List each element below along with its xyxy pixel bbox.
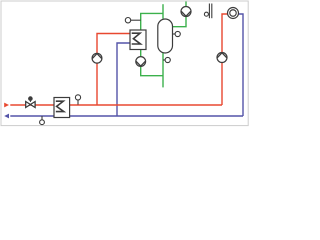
- heat exchanger HX2 (bottom): [54, 98, 70, 118]
- wire green HX1 bottom through pump P2: [141, 50, 163, 76]
- drain D1 (on return line): [40, 116, 45, 125]
- node red inlet arrow: [4, 103, 9, 108]
- sensor S4 (on supply after HX2): [75, 95, 80, 105]
- wire blue riser to HX1: [117, 43, 130, 116]
- vessel T1 (buffer tank): [158, 19, 173, 53]
- gauge G1 (heating circuit, double circle): [228, 8, 239, 19]
- wire red riser to HX1: [97, 34, 130, 106]
- pump P4 (red riser right): [217, 53, 227, 63]
- valve V1 (motor valve on supply): [26, 96, 35, 107]
- wire red heating-circuit supply (right): [222, 14, 228, 105]
- sensor S3 (below vessel): [163, 57, 170, 62]
- wire blue heating-circuit return (right): [238, 14, 243, 116]
- wire green vessel bottom drop: [162, 53, 164, 87]
- wire blue return main (horizontal): [10, 115, 243, 117]
- wire red supply main (horizontal): [10, 104, 222, 106]
- sensor S2 (vessel right side): [173, 31, 181, 36]
- pump P1 (red riser): [92, 53, 102, 63]
- wire green HX1 top to vessel junction: [141, 13, 163, 30]
- pump P2 (below HX1): [136, 57, 146, 67]
- pump P3 (top, to vessel): [181, 7, 191, 17]
- wire green pump P3 to vessel right: [173, 2, 187, 27]
- sensor S1 (on green pipe above HX1): [125, 18, 140, 23]
- air vent symbol: [204, 4, 211, 19]
- wire green vessel top stub: [162, 4, 164, 19]
- node blue inlet arrow: [4, 114, 9, 119]
- heat exchanger HX1 (top): [130, 30, 146, 50]
